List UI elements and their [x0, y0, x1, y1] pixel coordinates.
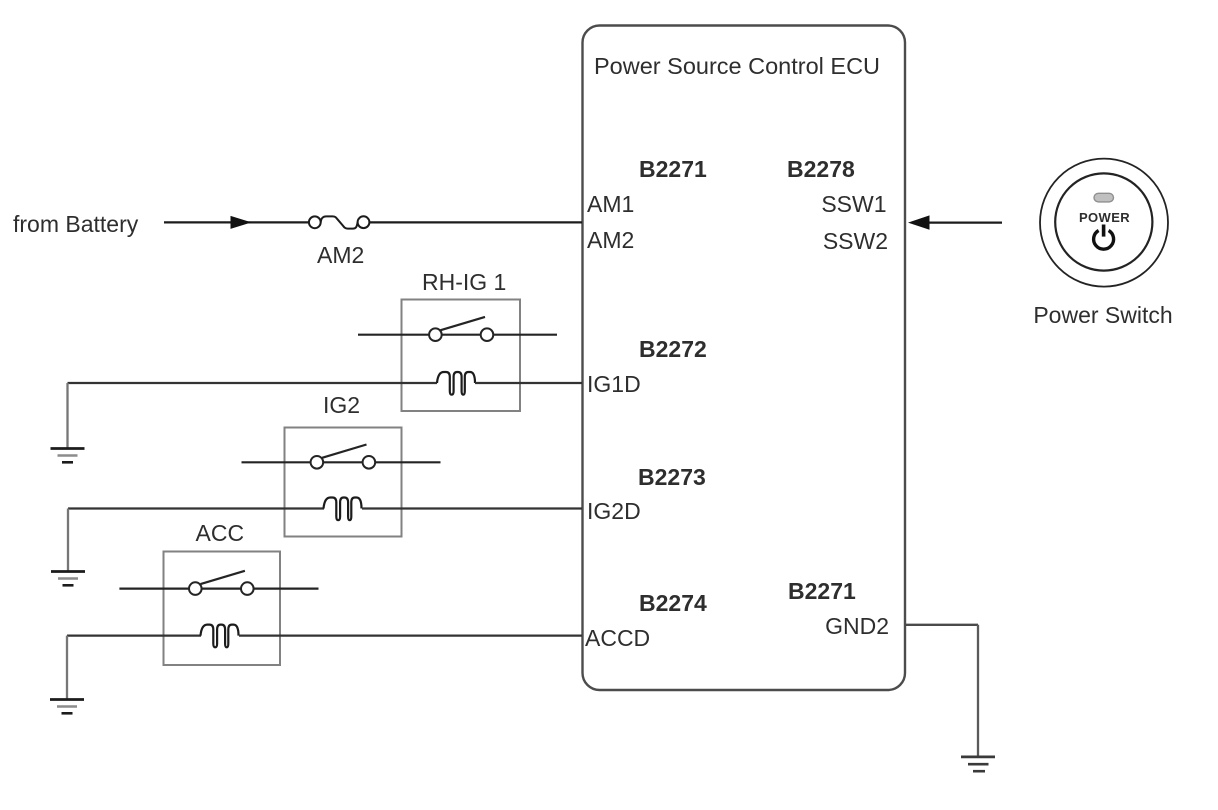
wire: RH-IG 1 switch contact line	[358, 334, 557, 336]
svg-text:B2271: B2271	[639, 156, 707, 182]
ECU box U1: Power Source Control ECU	[583, 26, 906, 691]
wire: IG2D net left of coil	[68, 507, 324, 509]
power switch SW1: bezel outer ring	[1040, 159, 1168, 287]
relay IG2: switch contacts	[311, 456, 376, 469]
relay ACC: coil	[201, 625, 239, 648]
svg-text:B2273: B2273	[638, 464, 706, 490]
relay ACC: box	[164, 552, 281, 666]
wire: coil to ECU IG2D pin	[362, 507, 582, 509]
svg-text:IG1D: IG1D	[587, 371, 641, 397]
relay RH-IG 1: switch contacts	[429, 328, 493, 341]
svg-text:SSW1: SSW1	[821, 191, 886, 217]
fuse AM2	[309, 216, 370, 228]
svg-text:AM1: AM1	[587, 191, 634, 217]
wire: IG1D net left of coil	[68, 382, 438, 384]
relay RH-IG 1: coil	[437, 372, 475, 395]
svg-text:B2278: B2278	[787, 156, 855, 182]
wire: ACCD net left of coil	[67, 634, 201, 636]
svg-text:IG2: IG2	[323, 392, 360, 418]
svg-text:GND2: GND2	[825, 613, 889, 639]
ground G4 (GND2)	[961, 757, 995, 771]
svg-text:B2274: B2274	[639, 590, 707, 616]
svg-text:ACCD: ACCD	[585, 625, 650, 651]
arrow: battery flow direction	[231, 216, 252, 229]
svg-text:POWER: POWER	[1079, 210, 1130, 225]
relay IG2: switch blade	[322, 445, 366, 458]
svg-text:from Battery: from Battery	[13, 211, 139, 237]
power switch LED indicator	[1094, 193, 1114, 202]
ground G3	[50, 700, 84, 714]
wire: GND2 pin to ground	[905, 624, 978, 626]
relay IG2: box	[285, 428, 402, 537]
wire: fuse to ECU AM1/AM2 pins	[369, 221, 582, 223]
relay RH-IG 1: box	[402, 300, 521, 412]
power switch SW1: button inner ring	[1055, 173, 1152, 270]
ground G1	[51, 449, 85, 463]
svg-text:ACC: ACC	[196, 520, 245, 546]
wire: power switch to SSW pins	[925, 222, 1002, 224]
relay IG2: coil	[324, 498, 362, 521]
wire: IG2D ground drop	[67, 509, 69, 572]
wire: battery feed to fuse AM2	[164, 221, 310, 223]
svg-text:Power Source Control ECU: Power Source Control ECU	[594, 53, 880, 79]
wire: ACC switch contact line	[119, 587, 318, 589]
wire: IG2 switch contact line	[242, 461, 441, 463]
wire: coil to ECU IG1D pin	[475, 382, 582, 384]
svg-text:Power Switch: Power Switch	[1033, 302, 1172, 328]
svg-text:SSW2: SSW2	[823, 228, 888, 254]
relay RH-IG 1: switch blade	[441, 317, 485, 330]
svg-text:AM2: AM2	[587, 227, 634, 253]
svg-text:AM2: AM2	[317, 242, 364, 268]
wire: GND2 ground drop	[977, 625, 979, 757]
svg-text:RH-IG 1: RH-IG 1	[422, 269, 506, 295]
svg-text:IG2D: IG2D	[587, 498, 641, 524]
svg-text:B2271: B2271	[788, 578, 856, 604]
relay ACC: switch contacts	[189, 582, 254, 595]
arrow: into SSW pins	[908, 215, 930, 229]
power switch standby icon	[1094, 225, 1114, 250]
wire: coil to ECU ACCD pin	[239, 634, 582, 636]
ground G2	[51, 572, 85, 586]
relay ACC: switch blade	[201, 571, 245, 584]
wire: IG1D ground drop	[66, 383, 68, 449]
wire: ACCD ground drop	[66, 636, 68, 700]
svg-text:B2272: B2272	[639, 336, 707, 362]
